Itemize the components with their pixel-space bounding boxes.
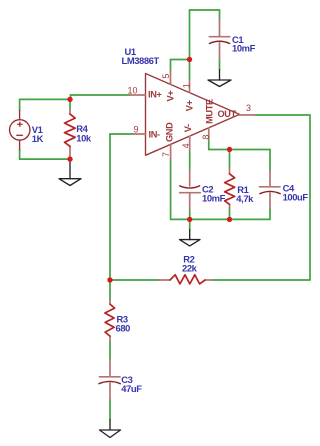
wire C2 bottom xyxy=(189,209,191,219)
wire pin7 column xyxy=(170,159,172,219)
svg-text:OUT: OUT xyxy=(218,109,237,119)
svg-text:GND: GND xyxy=(165,122,175,142)
wire C4 top riser xyxy=(269,150,271,171)
svg-text:MUTE: MUTE xyxy=(205,99,215,124)
wire pin5 drop xyxy=(170,60,172,71)
wire R1 top xyxy=(229,150,231,169)
wire mute row xyxy=(209,149,270,151)
svg-text:10: 10 xyxy=(128,86,138,96)
junction node IN+ xyxy=(67,97,72,102)
resistor R1 xyxy=(229,168,231,207)
wire pin4 to C2 xyxy=(189,151,191,171)
wire OUT horizontal xyxy=(255,114,310,116)
ground under C1 xyxy=(208,70,231,87)
svg-text:7: 7 xyxy=(161,152,171,157)
pin 3 lead xyxy=(240,114,256,116)
wire IN+ horizontal xyxy=(71,94,131,96)
ground under R4 xyxy=(59,162,81,186)
wire R2 left xyxy=(110,279,159,281)
wire top-left riser xyxy=(189,10,191,60)
wire R3-C3 link xyxy=(109,341,111,360)
svg-text:47uF: 47uF xyxy=(121,383,142,394)
junction node top xyxy=(187,57,192,62)
wire V1 bottom xyxy=(20,158,70,160)
svg-text:IN+: IN+ xyxy=(148,90,162,100)
svg-text:680: 680 xyxy=(116,322,131,333)
wire IN+ jog xyxy=(70,95,72,99)
svg-text:9: 9 xyxy=(134,125,139,135)
svg-text:V-: V- xyxy=(183,124,193,132)
wire IN- horizontal xyxy=(110,133,133,135)
capacitor C1 xyxy=(209,20,229,60)
wire V1 top riser xyxy=(19,99,21,110)
junction node C2 bottom xyxy=(187,217,192,222)
svg-text:8: 8 xyxy=(201,135,211,140)
svg-text:4,7k: 4,7k xyxy=(236,193,254,204)
svg-text:LM3886T: LM3886T xyxy=(122,55,160,66)
svg-text:V+: V+ xyxy=(184,100,194,111)
svg-text:IN-: IN- xyxy=(149,130,160,140)
svg-text:10mF: 10mF xyxy=(232,43,256,54)
resistor R3 xyxy=(109,300,111,341)
capacitor C2 xyxy=(180,170,201,209)
pin 10 lead xyxy=(130,94,146,96)
wire C3 bottom xyxy=(109,399,111,420)
wire output right riser xyxy=(309,115,311,280)
svg-text:1: 1 xyxy=(181,83,191,88)
pin 5 lead xyxy=(170,70,172,84)
pin 1 lead xyxy=(189,80,191,93)
pin 8 lead xyxy=(208,128,210,140)
wire ground stub mid xyxy=(189,219,191,229)
wire C4 bottom riser xyxy=(269,208,271,219)
svg-text:100uF: 100uF xyxy=(283,192,309,203)
op-amp U1 triangle xyxy=(146,74,240,156)
svg-text:V+: V+ xyxy=(166,91,176,102)
svg-text:10mF: 10mF xyxy=(202,192,226,203)
junction node R2 left xyxy=(107,277,112,282)
resistor R2 xyxy=(159,279,212,281)
svg-text:5: 5 xyxy=(161,74,171,79)
junction node R1 top xyxy=(227,147,232,152)
pin 4 lead xyxy=(189,136,191,150)
wire R4 top stub xyxy=(69,99,71,109)
wire pin5 jog horizontal xyxy=(171,59,190,61)
junction node R4 bottom xyxy=(67,156,72,161)
ground under C3 xyxy=(100,420,121,438)
svg-text:4: 4 xyxy=(181,143,191,148)
capacitor C4 xyxy=(260,171,281,209)
wire C1 top stub xyxy=(219,10,221,20)
wire pin8 drop xyxy=(208,140,210,150)
svg-text:3: 3 xyxy=(246,103,251,113)
svg-text:10k: 10k xyxy=(76,132,92,143)
wire bottom row xyxy=(171,218,270,220)
wire top horizontal xyxy=(190,9,220,11)
pin 7 lead xyxy=(170,144,172,159)
resistor R4 xyxy=(69,110,71,160)
wire R1 bottom xyxy=(229,207,231,219)
voltage source V1 xyxy=(10,110,30,149)
wire left column vertical xyxy=(109,134,111,280)
capacitor C3 xyxy=(100,360,121,399)
wire V1 bottom riser xyxy=(19,150,21,159)
svg-text:22k: 22k xyxy=(182,263,198,274)
pin 9 lead xyxy=(133,133,146,135)
wire R3 top stub xyxy=(109,280,111,300)
wire R2 right xyxy=(212,279,310,281)
wire C1 bottom stub xyxy=(219,59,221,69)
junction node R1 bottom xyxy=(227,217,232,222)
ground under C2 xyxy=(180,230,201,246)
svg-text:1K: 1K xyxy=(32,133,44,144)
wire V1 top xyxy=(20,98,71,100)
wire pin1 drop xyxy=(189,60,191,81)
